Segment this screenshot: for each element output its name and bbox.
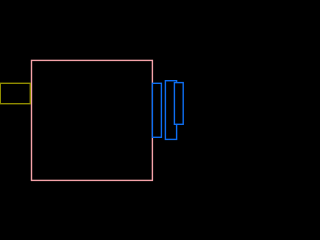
pin B2 (blue pad, right side tall) [165, 81, 176, 140]
pin B1 (blue pad, right side inner) [152, 83, 161, 137]
pin P1 (yellow pad, left side) [0, 83, 30, 103]
pin B3 (blue pad, right side outer, overlaps B2) [174, 83, 183, 125]
component body U1 (pink outline) [32, 60, 153, 180]
